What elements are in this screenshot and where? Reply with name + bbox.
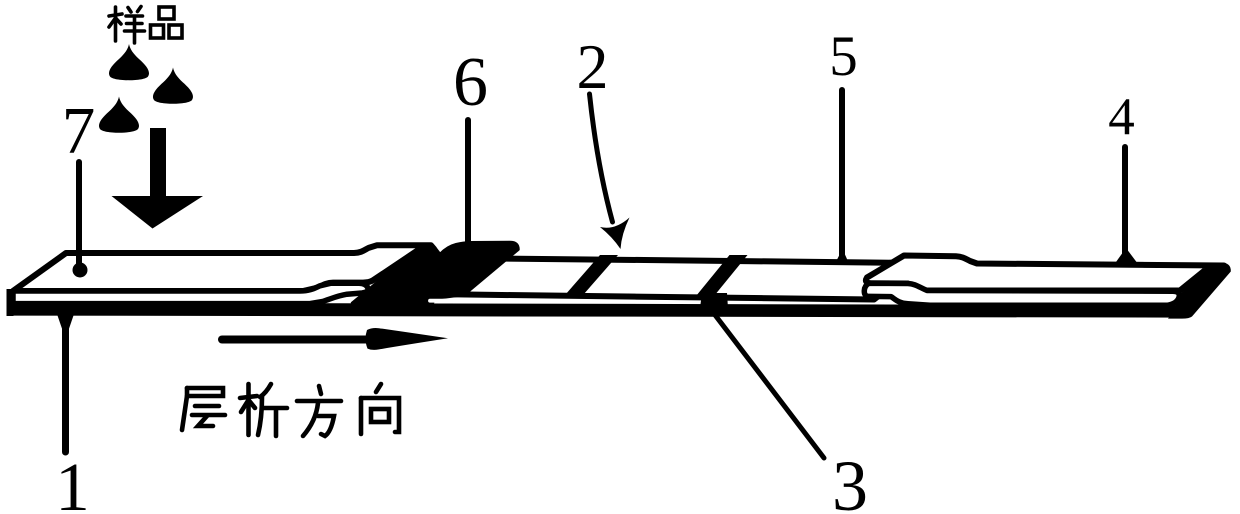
svg-text:7: 7 — [62, 94, 96, 168]
leader line 5 — [839, 90, 845, 256]
droplet B — [153, 68, 193, 104]
方 — [297, 386, 341, 436]
text 样品 (sample) drawn as strokes — [109, 7, 182, 44]
absorbent pad 4 side face (apron) — [864, 283, 1179, 305]
sample pad 7 top face — [13, 245, 434, 291]
品 — [151, 7, 183, 38]
absorbent pad 4 top face — [866, 256, 1224, 291]
big down arrow (sample application) — [112, 128, 204, 229]
svg-text:4: 4 — [1108, 88, 1135, 146]
strip left end edge — [7, 289, 14, 316]
membrane (nitrocellulose) top face — [448, 259, 920, 300]
析 — [240, 384, 287, 436]
svg-text:3: 3 — [832, 446, 868, 514]
detection line band 2 (left diagonal stripe on membrane) — [562, 255, 618, 299]
test line band 3 (right diagonal stripe on membrane) — [694, 255, 748, 299]
leader line 7 — [76, 162, 82, 266]
svg-text:1: 1 — [55, 449, 90, 514]
band 3 connector into backing — [700, 293, 728, 308]
svg-text:2: 2 — [577, 31, 609, 102]
svg-text:5: 5 — [829, 25, 858, 88]
svg-text:6: 6 — [453, 44, 488, 121]
leader arrow 2 — [590, 94, 613, 222]
向 — [361, 384, 399, 434]
leader line 1 — [62, 314, 69, 452]
white sliver under conjugate pad lip — [430, 299, 478, 303]
right end cap (bevel) — [1168, 263, 1231, 319]
层 — [182, 388, 225, 430]
text 层析方向 (chromatography direction) drawn as strokes — [182, 384, 399, 436]
sample pad 7 side face (apron) — [13, 283, 368, 303]
conjugate pad 6 (black block) — [352, 242, 519, 303]
样 — [109, 7, 145, 44]
chromatography direction arrow — [222, 336, 368, 344]
leader dot 7 — [73, 263, 88, 278]
leader line 3 — [712, 311, 824, 458]
droplet A — [109, 44, 149, 80]
leader line 6 — [465, 120, 471, 246]
leader line 4 — [1122, 147, 1128, 255]
droplet C — [99, 97, 139, 133]
backing card side (base band) — [7, 303, 1192, 318]
